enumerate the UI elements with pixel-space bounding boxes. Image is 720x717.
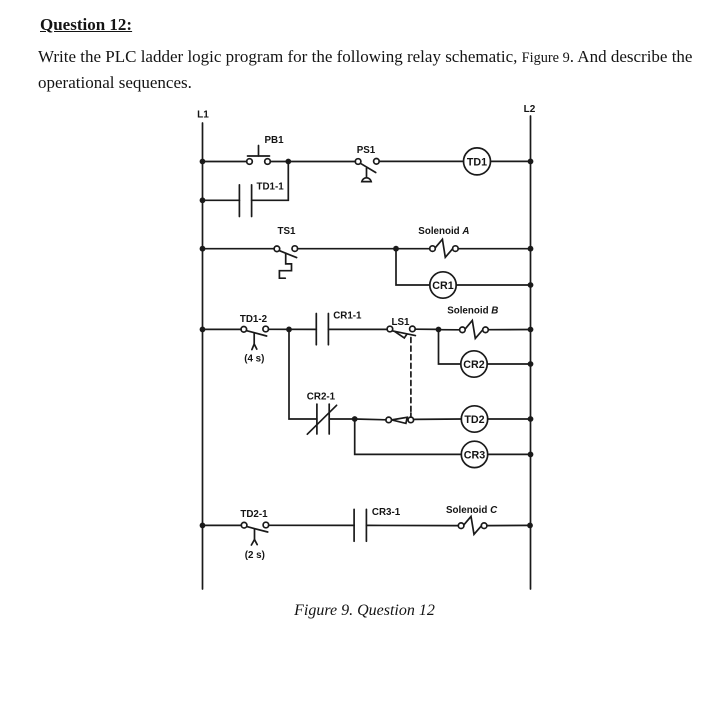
wire node to Solenoid B <box>439 329 460 331</box>
svg-text:TS1: TS1 <box>278 226 297 237</box>
wire rung2: L1 to TS1 <box>203 248 275 250</box>
solenoid B <box>460 321 489 339</box>
wire CR1 to L2 <box>456 284 530 286</box>
wire down from rung3 node to CR2-1 rung <box>289 329 317 419</box>
node L1-rung3 <box>200 327 206 333</box>
wire branch down to CR2 <box>439 330 461 365</box>
label L1 <box>197 109 209 120</box>
svg-text:CR1: CR1 <box>432 280 453 292</box>
label PS1 <box>357 145 376 156</box>
svg-text:Solenoid B: Solenoid B <box>447 305 498 316</box>
pushbutton PB1 <box>247 146 271 165</box>
wire TD2-1 to CR3-1 <box>269 524 355 526</box>
wire CR3-1 to Solenoid C <box>366 524 458 526</box>
wire CR1-1 to LS1 <box>328 328 387 330</box>
svg-text:CR3: CR3 <box>464 449 485 461</box>
svg-text:TD1-1: TD1-1 <box>257 181 285 192</box>
wire TD1-1 up to rung1 <box>252 162 289 201</box>
svg-text:LS1: LS1 <box>392 317 411 328</box>
coil CR1 <box>430 272 456 298</box>
limit switch contact LS1-2 held closed <box>386 413 414 423</box>
node after CR2-1 <box>352 416 358 422</box>
node L2-CR3 <box>528 452 534 458</box>
svg-text:L1: L1 <box>197 109 209 120</box>
node before Solenoid B <box>436 327 442 333</box>
wire branch down to CR1 <box>396 249 430 285</box>
dashed mechanical link LS1 <box>410 338 412 414</box>
svg-text:(4 s): (4 s) <box>244 353 264 364</box>
label TS1 <box>278 226 297 237</box>
svg-text:TD1-2: TD1-2 <box>240 314 268 325</box>
node before Solenoid A <box>393 246 399 252</box>
svg-text:TD2-1: TD2-1 <box>240 509 268 520</box>
wire PB1 to PS1 <box>270 161 355 163</box>
node after PB1 <box>285 159 291 165</box>
wire rung1: L1 to PB1 <box>203 161 247 163</box>
node L2-rung2 <box>528 246 534 252</box>
wire Solenoid A to L2 <box>458 248 530 250</box>
timed contact TD1-2 <box>241 326 269 349</box>
label CR3-1 <box>372 507 401 518</box>
node L2-CR2 <box>528 361 534 367</box>
wire TD1 to L2 <box>491 160 531 162</box>
svg-text:PS1: PS1 <box>357 145 376 156</box>
solenoid C <box>458 516 487 534</box>
wire LS1-2 to TD2 <box>414 418 462 420</box>
wire node to Solenoid A <box>396 248 430 250</box>
label L2 <box>524 104 536 115</box>
label Solenoid C <box>446 505 498 516</box>
wire CR3 to L2 <box>488 453 531 455</box>
coil CR3 <box>461 441 487 467</box>
node L2-CR1 <box>528 282 534 288</box>
svg-text:PB1: PB1 <box>264 135 284 146</box>
contact CR1-1 <box>316 314 328 345</box>
label (2 s) <box>245 550 265 561</box>
label Solenoid A <box>418 226 469 237</box>
wire PS1 to TD1 <box>379 160 463 162</box>
node L1-rung1 <box>200 159 206 165</box>
label TD1-2 <box>240 314 268 325</box>
node L1-rung6 <box>200 523 206 529</box>
coil CR2 <box>461 351 487 377</box>
svg-text:CR3-1: CR3-1 <box>372 507 401 518</box>
wire node to LS1-2 <box>355 418 386 421</box>
svg-text:CR2-1: CR2-1 <box>307 391 336 402</box>
coil TD2 <box>461 406 487 432</box>
wire LS1 to node <box>415 328 438 330</box>
label LS1 <box>392 317 411 328</box>
timed contact TD2-1 <box>241 522 268 545</box>
wire L1 to TD1-1 <box>203 199 240 201</box>
node after TD1-2 <box>286 327 292 333</box>
svg-text:L2: L2 <box>524 104 536 115</box>
label TD2-1 <box>240 509 268 520</box>
pressure switch PS1 <box>355 159 379 182</box>
node L2-rung3 <box>528 327 534 333</box>
svg-text:TD2: TD2 <box>464 414 484 426</box>
contact CR2-1 normally closed <box>307 404 336 434</box>
wire rung6: L1 to TD2-1 <box>203 524 242 526</box>
solenoid A <box>430 239 459 257</box>
label (4 s) <box>244 353 264 364</box>
node L2-TD2 <box>528 416 534 422</box>
rail L2 <box>530 116 532 589</box>
svg-text:TD1: TD1 <box>467 156 487 168</box>
wire TD2 to L2 <box>488 418 531 420</box>
node L1-rung2 <box>200 246 206 252</box>
label CR1-1 <box>333 310 362 321</box>
temperature switch TS1 <box>274 246 298 278</box>
wire CR2-1 to node <box>329 418 355 420</box>
wire TD1-2 to CR1-1 <box>268 328 316 330</box>
node L1-TD1-1 <box>200 197 206 203</box>
label CR2-1 <box>307 391 336 402</box>
contact CR3-1 <box>354 509 366 541</box>
label PB1 <box>264 135 284 146</box>
svg-text:Solenoid C: Solenoid C <box>446 505 498 516</box>
wire branch down to CR3 <box>355 419 462 454</box>
label Solenoid B <box>447 305 498 316</box>
node L2-rung6 <box>527 523 533 529</box>
node L2-rung1 <box>528 159 534 165</box>
svg-text:(2 s): (2 s) <box>245 550 265 561</box>
label TD1-1 <box>257 181 285 192</box>
contact TD1-1 <box>239 185 251 217</box>
wire rung3: L1 to TD1-2 <box>203 328 242 330</box>
wire Solenoid B to L2 <box>488 329 530 331</box>
coil TD1 <box>464 148 491 175</box>
rail L1 <box>202 123 204 589</box>
limit switch LS1 <box>387 326 415 338</box>
wire CR2 to L2 <box>487 363 530 365</box>
svg-text:Solenoid A: Solenoid A <box>418 226 469 237</box>
wire TS1 to node <box>298 248 396 250</box>
wire Solenoid C to L2 <box>487 524 531 526</box>
svg-text:CR2: CR2 <box>463 359 484 371</box>
svg-text:CR1-1: CR1-1 <box>333 310 362 321</box>
